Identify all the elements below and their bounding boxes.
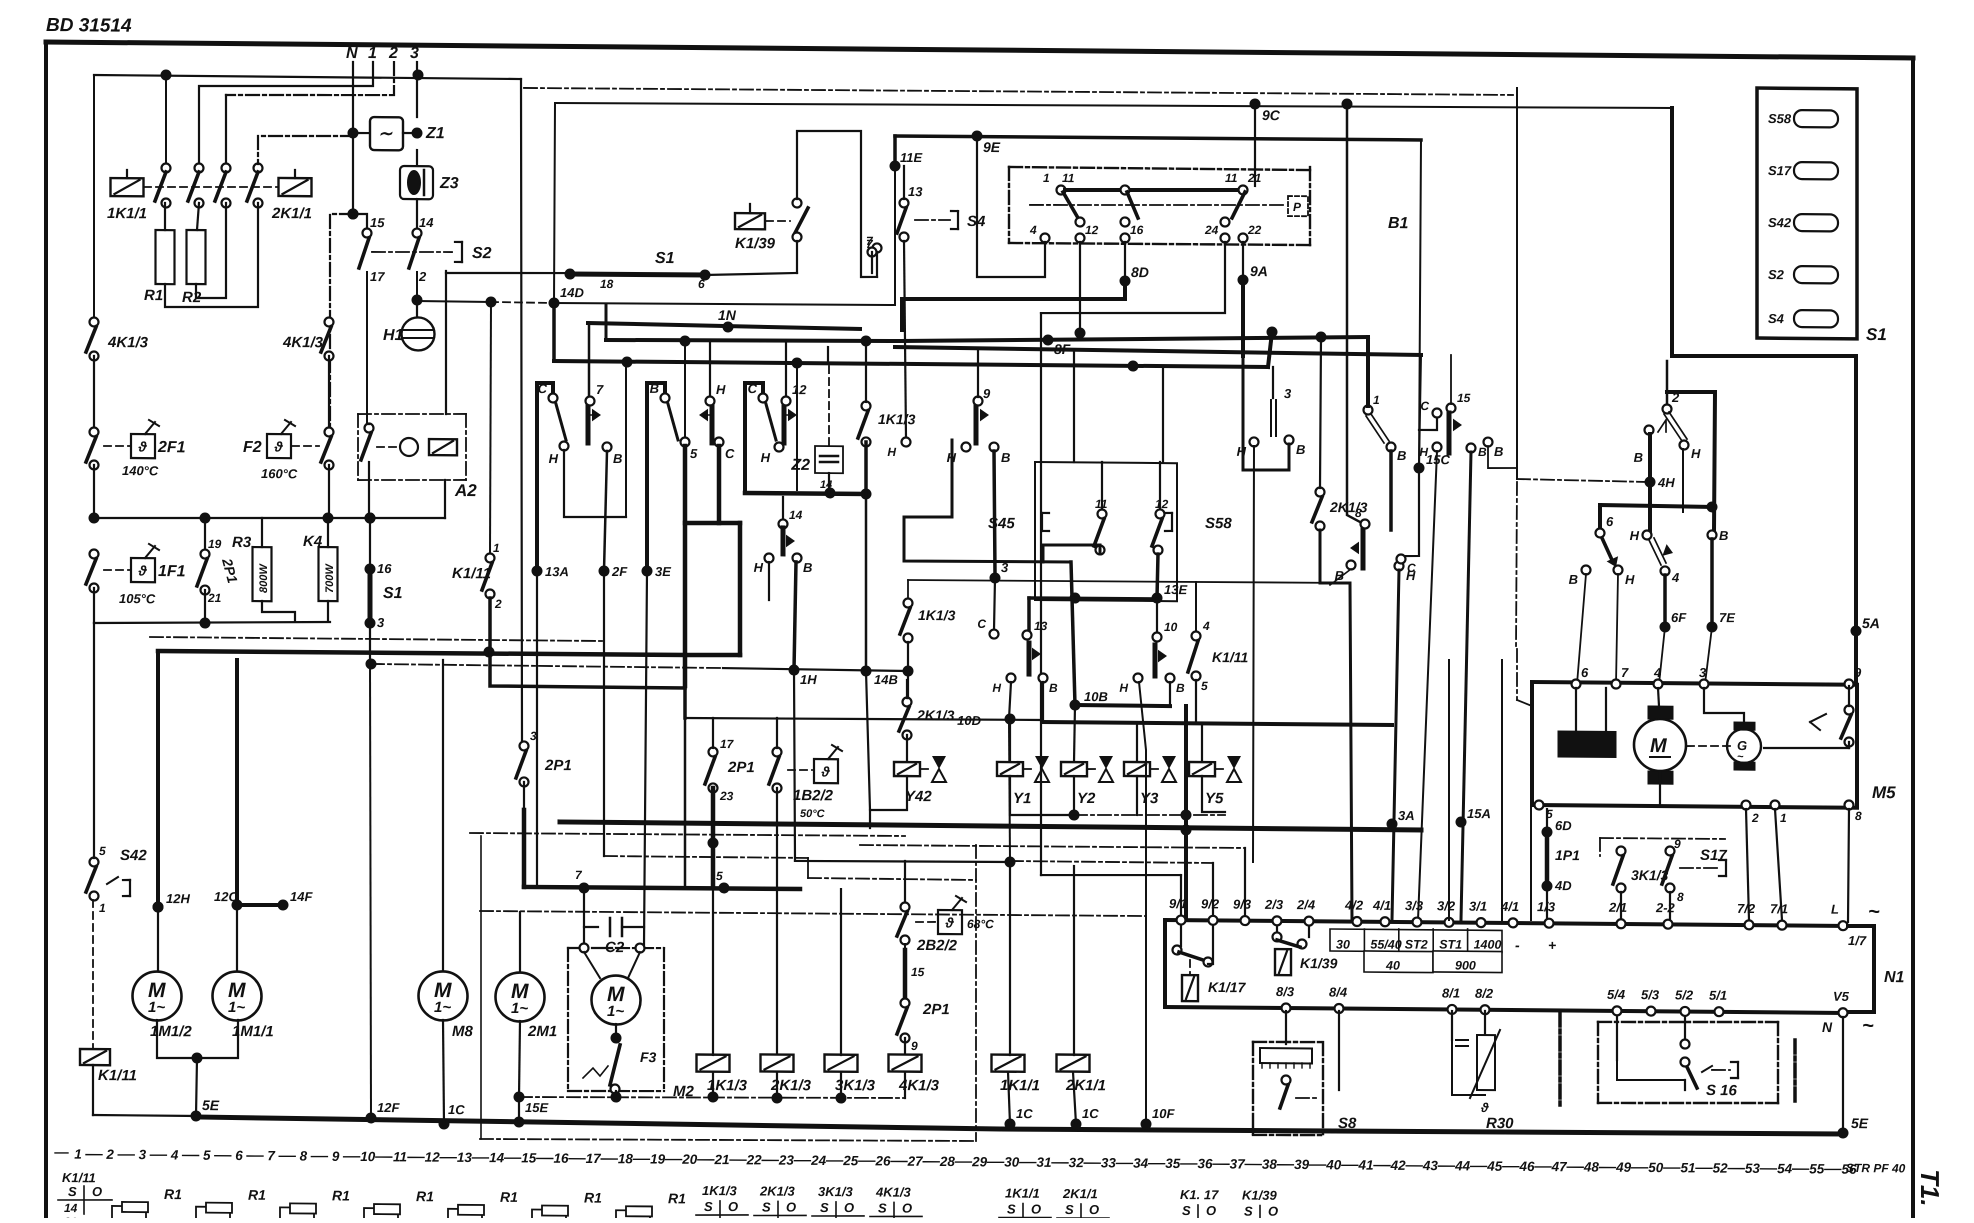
- svg-text:7/1: 7/1: [1770, 901, 1788, 916]
- col 3: [416, 62, 418, 75]
- B stub near x1517: [1484, 438, 1493, 447]
- 1B2/2 thermostat: [773, 747, 782, 756]
- bus A y347: [895, 347, 1421, 355]
- svg-text:13: 13: [1034, 619, 1048, 633]
- svg-text:K1/11: K1/11: [452, 565, 491, 582]
- svg-text:4: 4: [170, 1147, 179, 1162]
- svg-text:K1/39: K1/39: [735, 235, 776, 252]
- svg-text:S1: S1: [1866, 325, 1887, 344]
- svg-text:3: 3: [1001, 560, 1009, 575]
- net 3 wire y580: [908, 579, 1350, 584]
- svg-text:C: C: [977, 617, 986, 631]
- svg-text:S4: S4: [1768, 311, 1785, 326]
- 8/4 down: [1338, 1011, 1340, 1090]
- svg-text:ϑ: ϑ: [274, 439, 284, 455]
- svg-text:A2: A2: [454, 481, 477, 500]
- svg-text:B: B: [1176, 681, 1185, 695]
- terminal 8/2: [1481, 1005, 1490, 1014]
- svg-text:9A: 9A: [1250, 263, 1268, 279]
- svg-text:23: 23: [778, 1153, 795, 1168]
- M5 internal switch 9: [1845, 705, 1854, 714]
- svg-text:O: O: [1031, 1202, 1041, 1217]
- svg-text:19: 19: [208, 537, 222, 551]
- relay K1/39 under strip: [1276, 926, 1278, 935]
- svg-text:STR PF 40: STR PF 40: [1846, 1161, 1906, 1176]
- terminal 8/3: [1282, 1003, 1291, 1012]
- svg-text:5/2: 5/2: [1675, 987, 1694, 1002]
- svg-text:K1/39: K1/39: [1242, 1188, 1277, 1203]
- generator G: [1727, 729, 1761, 763]
- long wire x1146: [1139, 682, 1146, 1124]
- wire x521 down: [521, 79, 522, 744]
- svg-text:7: 7: [1621, 665, 1629, 680]
- svg-text:2: 2: [105, 1147, 114, 1162]
- contact 10 with arrow: [1156, 599, 1158, 633]
- svg-text:12H: 12H: [166, 891, 190, 906]
- svg-text:39: 39: [1294, 1157, 1310, 1172]
- stack 2 (B-H-5-C): [647, 383, 665, 571]
- svg-text:N1: N1: [1884, 969, 1905, 986]
- stack 3 (C-12-H): [745, 383, 763, 493]
- 9C wire: [555, 99, 1672, 113]
- svg-text:2K1/3: 2K1/3: [759, 1183, 795, 1198]
- 3K1/3 / S17 switches: [1600, 838, 1725, 839]
- wire to 10B: [1071, 562, 1075, 705]
- thick link y686: [490, 598, 685, 688]
- motor bottoms join: [157, 1019, 238, 1058]
- svg-text:S58: S58: [1768, 111, 1792, 126]
- svg-text:1H: 1H: [800, 672, 817, 687]
- svg-text:5E: 5E: [202, 1097, 220, 1113]
- terminal 8/1: [1448, 1005, 1457, 1014]
- terminal 7/2: [1745, 920, 1754, 929]
- svg-text:8: 8: [300, 1149, 308, 1164]
- svg-text:S1: S1: [383, 585, 403, 602]
- relay coil K1/11: [80, 1049, 110, 1065]
- svg-text:1: 1: [74, 1147, 82, 1162]
- svg-text:S: S: [1182, 1203, 1191, 1218]
- svg-text:3/1: 3/1: [1469, 899, 1487, 914]
- wire 17 to A2: [366, 272, 368, 424]
- svg-text:H: H: [716, 382, 726, 397]
- svg-text:O: O: [902, 1200, 912, 1215]
- svg-text:H: H: [947, 450, 957, 465]
- svg-text:800W: 800W: [258, 563, 270, 593]
- svg-text:30: 30: [1004, 1155, 1020, 1170]
- Z3: [416, 150, 418, 166]
- S1 bar 18-6: [446, 272, 570, 274]
- wire Z1-left to contact4: [258, 135, 354, 165]
- K1/39 stub down: [796, 241, 798, 273]
- svg-text:105°C: 105°C: [119, 591, 156, 606]
- svg-text:32: 32: [1069, 1155, 1085, 1170]
- wire H to 3/3: [1418, 451, 1437, 920]
- contact 4 / K1/11: [1195, 582, 1197, 632]
- svg-text:1: 1: [493, 541, 500, 555]
- terminal 9/3: [1241, 916, 1250, 925]
- S2 contact 15: [363, 228, 372, 237]
- svg-text:8: 8: [1855, 809, 1862, 823]
- svg-text:10D: 10D: [957, 713, 981, 728]
- svg-text:P: P: [1293, 200, 1302, 214]
- terminal 8/4: [1335, 1004, 1344, 1013]
- 5/4 down: [1616, 1017, 1618, 1060]
- svg-text:16: 16: [377, 561, 392, 576]
- svg-text:Z2: Z2: [790, 457, 810, 474]
- svg-text:4K1/3: 4K1/3: [875, 1184, 911, 1199]
- svg-text:1N: 1N: [718, 307, 737, 323]
- svg-text:S45: S45: [988, 515, 1015, 532]
- thick wire 10B: [1075, 705, 1170, 706]
- relay coil K1/17: [1182, 975, 1198, 1001]
- svg-text:R1: R1: [164, 1186, 182, 1202]
- svg-text:4K1/3: 4K1/3: [282, 334, 324, 351]
- svg-text:F2: F2: [243, 439, 262, 456]
- M5 terminal 3: [1700, 679, 1709, 688]
- contact 13 / S4: [868, 247, 877, 256]
- svg-text:3: 3: [1284, 386, 1292, 401]
- resistor R2: [187, 230, 206, 284]
- A2 auxiliary box: [358, 413, 466, 415]
- R30 resistor: [1477, 1035, 1495, 1090]
- svg-text:ϑ: ϑ: [138, 438, 148, 454]
- motor M: [1634, 719, 1686, 771]
- A2 right pin up: [445, 271, 447, 414]
- svg-text:S: S: [704, 1199, 713, 1214]
- K1/11 contact mid-left: [486, 553, 495, 562]
- svg-text:35: 35: [1165, 1156, 1181, 1171]
- svg-text:S: S: [820, 1200, 829, 1215]
- valve Y42: [894, 762, 920, 776]
- dash-dot y845/y861: [860, 845, 1245, 849]
- svg-text:1~: 1~: [228, 999, 245, 1016]
- svg-text:2P1: 2P1: [544, 757, 572, 774]
- svg-text:+: +: [1548, 937, 1556, 953]
- svg-text:14B: 14B: [874, 672, 898, 687]
- thick columns 5/C down to junction: [683, 446, 688, 686]
- svg-text:10: 10: [360, 1149, 376, 1164]
- svg-text:9C: 9C: [1262, 107, 1281, 123]
- svg-text:S2: S2: [472, 245, 492, 262]
- valve Y5: [1201, 723, 1203, 762]
- svg-text:12: 12: [1085, 223, 1099, 237]
- svg-text:1K1/1: 1K1/1: [107, 205, 147, 222]
- relay coil 3K1/3: [825, 1055, 858, 1072]
- svg-text:ST1: ST1: [1439, 938, 1462, 952]
- svg-text:1: 1: [1373, 393, 1380, 407]
- wire 7E: [1710, 539, 1714, 627]
- svg-text:R1: R1: [668, 1190, 686, 1206]
- svg-text:15E: 15E: [525, 1100, 548, 1115]
- crossbar: [1600, 505, 1712, 507]
- svg-text:K1/17: K1/17: [1208, 979, 1247, 995]
- svg-text:41: 41: [1357, 1158, 1373, 1173]
- svg-text:9: 9: [332, 1149, 340, 1164]
- contact 2 top right: [1666, 361, 1669, 405]
- dash-dot bus y845: [150, 637, 604, 641]
- svg-text:9/2: 9/2: [1201, 896, 1220, 911]
- svg-text:55/40: 55/40: [1370, 938, 1401, 952]
- svg-text:4: 4: [1653, 665, 1662, 680]
- svg-text:8/3: 8/3: [1276, 984, 1295, 999]
- svg-text:1~: 1~: [511, 1000, 528, 1017]
- contact 6: [1598, 505, 1602, 529]
- relay contact 1K1/1: [111, 178, 144, 196]
- B1 P box: [1288, 196, 1308, 216]
- svg-text:44: 44: [1454, 1158, 1471, 1173]
- svg-text:S58: S58: [1205, 515, 1232, 532]
- svg-text:52: 52: [1713, 1161, 1729, 1176]
- resistor R1: [156, 230, 175, 284]
- R1/R2 bottom loops: [196, 203, 226, 298]
- wire H to 4/1: [1392, 570, 1399, 920]
- svg-text:H: H: [1119, 681, 1128, 695]
- svg-text:1C: 1C: [448, 1102, 465, 1117]
- svg-text:45: 45: [1486, 1159, 1503, 1174]
- svg-text:N: N: [1822, 1019, 1833, 1035]
- svg-text:22: 22: [1247, 223, 1262, 237]
- thick wire down to 5A: [1670, 108, 1674, 356]
- svg-text:H1: H1: [383, 327, 404, 344]
- long wire x371: [370, 660, 371, 1118]
- thermal switch 1F1: [90, 549, 99, 558]
- capacitor Z2: [828, 366, 830, 446]
- wire x866 down: [865, 494, 868, 671]
- dash-dot y832: [470, 832, 905, 836]
- M5 terminal 4: [1654, 679, 1663, 688]
- svg-text:3: 3: [377, 615, 385, 630]
- F3 protector: [611, 1084, 620, 1093]
- svg-text:3E: 3E: [655, 564, 671, 579]
- svg-text:K1/11: K1/11: [1212, 649, 1249, 665]
- motor bottom stub: [1659, 771, 1661, 805]
- M5 bottom terminal 5: [1535, 800, 1544, 809]
- svg-text:1: 1: [1780, 811, 1787, 825]
- svg-text:10F: 10F: [1152, 1106, 1175, 1121]
- svg-text:5/3: 5/3: [1641, 987, 1660, 1002]
- svg-text:4/1: 4/1: [1372, 898, 1391, 913]
- 1K1/3 contact (x866): [862, 401, 871, 410]
- M5 terminal 6: [1572, 679, 1581, 688]
- svg-text:27: 27: [907, 1154, 925, 1169]
- svg-text:R1: R1: [584, 1190, 602, 1206]
- wire B loop: [1243, 444, 1289, 471]
- wire x1010 mid: [1009, 722, 1010, 861]
- svg-text:1B2/2: 1B2/2: [793, 787, 834, 804]
- wire from H1 node right / 14D: [417, 300, 491, 303]
- svg-text:68°C: 68°C: [967, 917, 994, 931]
- K1/39 relay contact top: [735, 213, 765, 229]
- svg-text:F3: F3: [640, 1049, 657, 1065]
- svg-text:3: 3: [530, 729, 537, 743]
- 4K1/3 left contact: [90, 317, 99, 326]
- B1 terminal 4: [1041, 233, 1050, 242]
- svg-text:B1: B1: [1388, 215, 1409, 232]
- svg-text:4: 4: [1202, 619, 1210, 633]
- thick bus y828: [560, 822, 1421, 830]
- svg-text:R1: R1: [144, 287, 163, 304]
- B1 linkage: [1030, 203, 1285, 207]
- B1 program unit dash-dot box: [1009, 167, 1310, 170]
- svg-text:19: 19: [650, 1152, 666, 1167]
- dash-dot top wire: [524, 87, 1513, 97]
- S8 resistor R: [1260, 1048, 1312, 1063]
- 1P1 column: [1546, 809, 1548, 920]
- S2 switch group: [348, 208, 359, 219]
- svg-text:~: ~: [1862, 1015, 1874, 1037]
- N1 box edges: [1163, 920, 1167, 1007]
- svg-text:6: 6: [235, 1148, 243, 1163]
- svg-text:Z1: Z1: [425, 125, 445, 142]
- svg-text:2/1: 2/1: [1608, 900, 1627, 915]
- wire 2K1/3 to 4/2: [1320, 530, 1352, 920]
- svg-text:2K1/1: 2K1/1: [1062, 1186, 1098, 1201]
- 9C down to B1: [1254, 104, 1256, 186]
- 12H riser: [156, 651, 160, 907]
- contact 13 column (x906): [904, 440, 1071, 563]
- 2P1 contact (17-23): [709, 747, 718, 756]
- svg-text:8D: 8D: [1131, 264, 1149, 280]
- svg-text:24: 24: [810, 1153, 827, 1168]
- terminal 5/1: [1715, 1007, 1724, 1016]
- relay coil 4K1/3: [889, 1054, 922, 1071]
- N column: [352, 62, 354, 214]
- thin line 1H/14B y668: [371, 664, 723, 668]
- wire x685 down: [684, 718, 687, 888]
- bus y364 right: [1128, 360, 1139, 371]
- bus B y361: [554, 361, 1268, 367]
- motor 1M1/1: [235, 660, 239, 905]
- svg-text:9: 9: [983, 386, 991, 401]
- svg-text:1K1/1: 1K1/1: [1005, 1186, 1040, 1201]
- motor 2M1: [496, 972, 545, 1021]
- wire W1 top-left bus: [94, 75, 521, 79]
- node 4H: [1645, 425, 1654, 434]
- svg-text:14: 14: [789, 508, 803, 522]
- wire 2B2/2 top: [795, 860, 1010, 863]
- svg-text:13E: 13E: [1164, 582, 1187, 597]
- B1 top bar: [1065, 189, 1240, 192]
- svg-text:3/3: 3/3: [1405, 898, 1424, 913]
- svg-text:H: H: [754, 560, 764, 575]
- valve Y3: [1136, 723, 1138, 762]
- svg-text:H: H: [761, 450, 771, 465]
- svg-text:6F: 6F: [1671, 610, 1687, 625]
- terminal 5/3: [1647, 1007, 1656, 1016]
- relay coil 2K1/3: [761, 1054, 794, 1071]
- wire H to M5-7: [1616, 574, 1618, 684]
- terminal L: [1839, 921, 1848, 930]
- relay contact 2K1/1: [279, 178, 312, 196]
- svg-text:H: H: [887, 445, 896, 459]
- B1-24 down: [1041, 240, 1225, 314]
- svg-text:S42: S42: [1768, 215, 1792, 230]
- svg-text:5: 5: [1201, 679, 1208, 693]
- wire 685 top: [684, 341, 686, 438]
- svg-text:8/2: 8/2: [1475, 986, 1494, 1001]
- svg-text:O: O: [844, 1200, 854, 1215]
- 2K1/3 contact mid: [1316, 487, 1325, 496]
- strip small boxes 30/55/40: [1330, 929, 1502, 952]
- H down to crossbar: [1682, 449, 1684, 512]
- svg-text:1C: 1C: [1082, 1106, 1099, 1121]
- thick bus y887: [524, 887, 800, 890]
- 8F riser: [605, 305, 608, 340]
- svg-text:C: C: [748, 381, 758, 396]
- svg-text:30: 30: [1336, 938, 1350, 952]
- Z1: [353, 132, 370, 134]
- wire 797 down: [796, 363, 798, 490]
- svg-text:5E: 5E: [1851, 1115, 1869, 1131]
- motor M8: [419, 971, 468, 1020]
- 1H column: [794, 562, 796, 670]
- svg-text:46: 46: [1518, 1159, 1535, 1174]
- box riser left: [1073, 350, 1075, 462]
- svg-text:Y2: Y2: [1077, 790, 1096, 807]
- svg-text:12C: 12C: [214, 889, 238, 904]
- svg-text:38: 38: [1262, 1157, 1278, 1172]
- svg-text:2M1: 2M1: [527, 1023, 557, 1040]
- svg-text:17: 17: [586, 1151, 603, 1166]
- thermal switch 2F1: [90, 427, 99, 436]
- svg-text:4: 4: [1029, 223, 1037, 237]
- svg-text:S: S: [68, 1184, 77, 1199]
- valve Y2: [1074, 705, 1075, 762]
- svg-text:C: C: [725, 446, 735, 461]
- valve Y1: [1009, 720, 1011, 762]
- thick bar y493 with Z2: [745, 493, 866, 494]
- terminal 4/1b: [1509, 918, 1518, 927]
- svg-text:6D: 6D: [1555, 818, 1572, 833]
- svg-text:S1: S1: [655, 250, 675, 267]
- svg-text:2: 2: [388, 45, 398, 62]
- svg-text:16: 16: [1130, 223, 1144, 237]
- B1 terminal 24: [1221, 233, 1230, 242]
- svg-text:1~: 1~: [607, 1003, 624, 1020]
- N1 strip top: [1165, 920, 1848, 926]
- wire 9C-area down: [1347, 103, 1360, 522]
- col 1: [199, 60, 373, 169]
- svg-text:5: 5: [716, 869, 723, 883]
- svg-text:B: B: [1719, 528, 1728, 543]
- svg-text:2B2/2: 2B2/2: [916, 937, 958, 954]
- svg-text:1C: 1C: [1016, 1106, 1033, 1121]
- svg-text:R1: R1: [500, 1189, 518, 1205]
- svg-text:18: 18: [618, 1151, 634, 1166]
- svg-text:54: 54: [1777, 1161, 1793, 1176]
- svg-text:12F: 12F: [377, 1100, 400, 1115]
- svg-text:6: 6: [698, 277, 705, 291]
- 15C dot: [1419, 355, 1421, 468]
- terminal 2/3: [1273, 916, 1282, 925]
- svg-text:T1.: T1.: [1915, 1169, 1945, 1207]
- contact 14 under Z2: [782, 497, 784, 520]
- svg-text:7E: 7E: [1719, 610, 1735, 625]
- svg-text:O: O: [92, 1184, 102, 1199]
- svg-text:140°C: 140°C: [122, 463, 159, 478]
- switch 2P1 (19-21): [204, 518, 206, 550]
- svg-text:42: 42: [1390, 1158, 1407, 1173]
- svg-text:11: 11: [1225, 171, 1238, 185]
- svg-text:26: 26: [874, 1153, 891, 1168]
- svg-text:5/1: 5/1: [1709, 988, 1727, 1003]
- wire H x1254 down: [1253, 446, 1254, 862]
- svg-text:21: 21: [207, 591, 222, 605]
- relay coil 1K1/1: [992, 1055, 1025, 1072]
- svg-text:40: 40: [1325, 1157, 1342, 1172]
- svg-text:13: 13: [457, 1150, 473, 1165]
- motor M2: [592, 975, 641, 1024]
